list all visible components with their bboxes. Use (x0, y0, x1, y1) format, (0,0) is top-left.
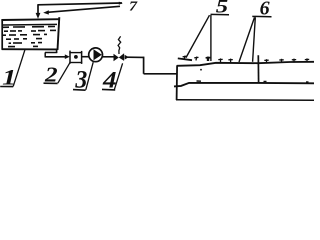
svg-text:2: 2 (44, 63, 58, 87)
svg-text:7: 7 (129, 0, 139, 14)
svg-text:4: 4 (102, 68, 117, 93)
svg-text:6: 6 (260, 0, 270, 20)
svg-text:1: 1 (2, 65, 16, 90)
svg-text:3: 3 (74, 66, 87, 94)
svg-text:5: 5 (216, 0, 228, 17)
